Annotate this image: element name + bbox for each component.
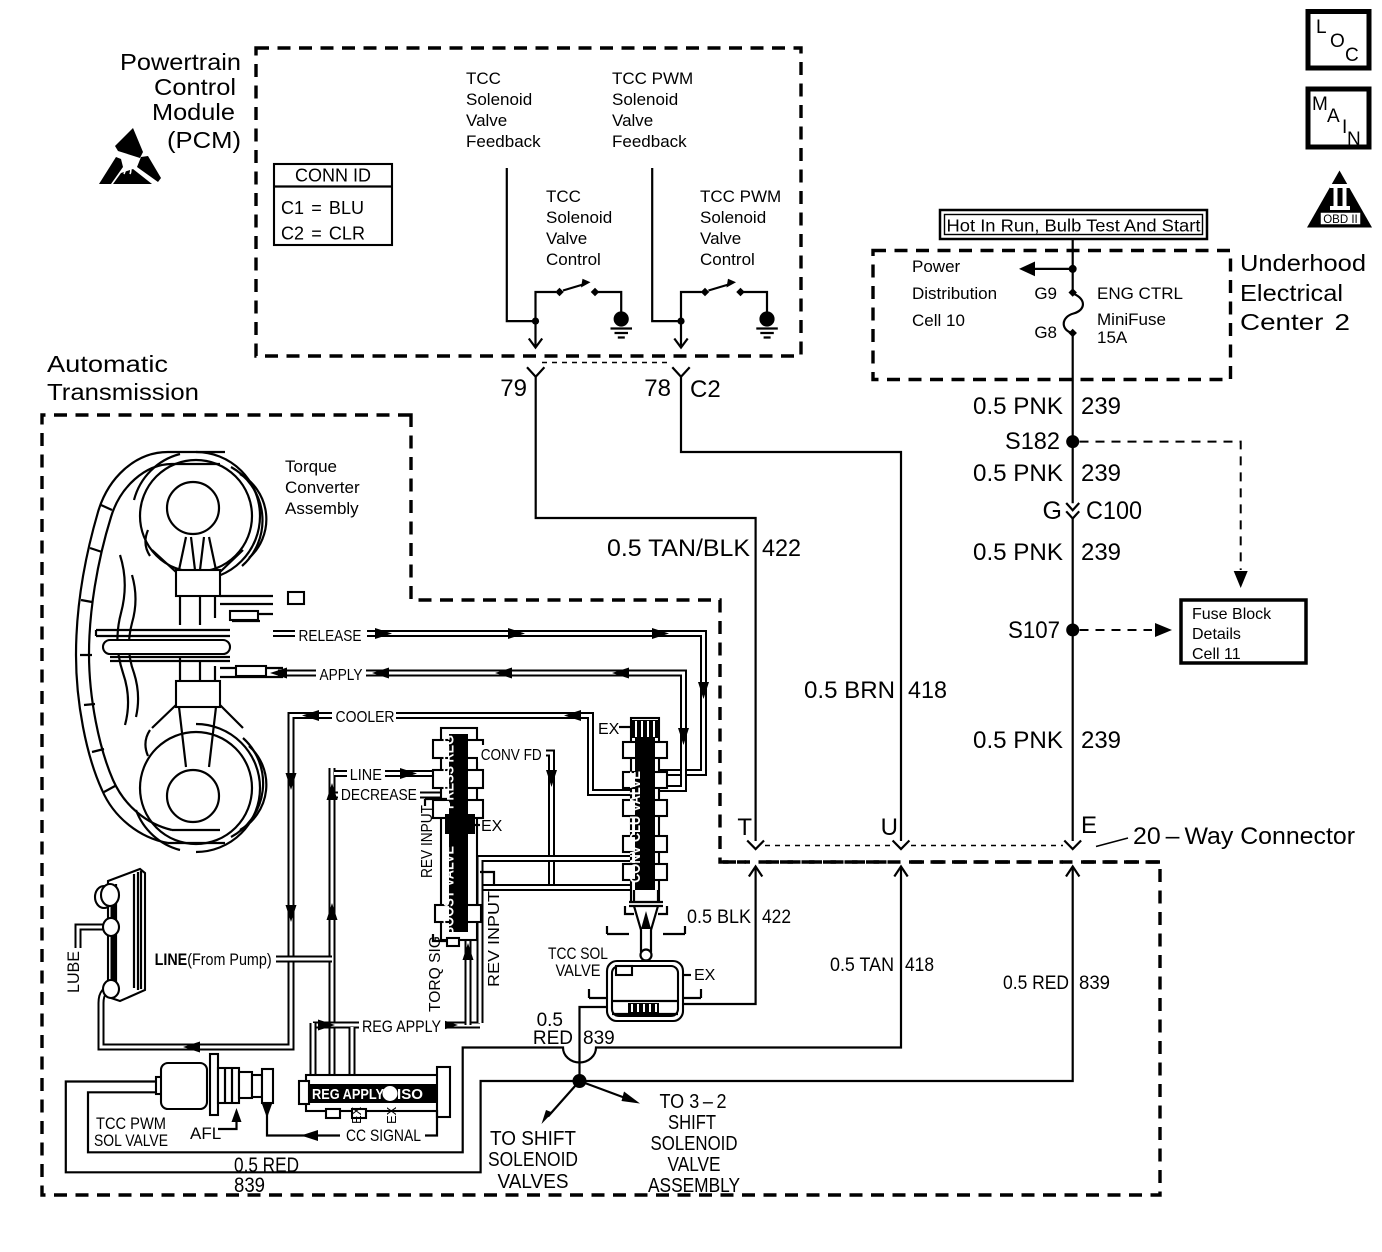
arrow COOLER bottom left bbox=[183, 1042, 200, 1053]
REG APPLY label bbox=[359, 1016, 445, 1036]
arrow APPLY left tip bbox=[270, 668, 287, 679]
svg-text:SOLENOID: SOLENOID bbox=[488, 1149, 578, 1171]
svg-text:0.5 RED: 0.5 RED bbox=[1003, 973, 1069, 994]
svg-text:N: N bbox=[1347, 129, 1361, 150]
arrow into T bbox=[749, 867, 762, 877]
svg-text:239: 239 bbox=[1081, 393, 1121, 420]
svg-text:422: 422 bbox=[762, 535, 801, 562]
pin 79 chevron bbox=[527, 367, 544, 377]
svg-text:0.5 PNK: 0.5 PNK bbox=[973, 727, 1063, 754]
svg-text:VALVES: VALVES bbox=[498, 1171, 569, 1193]
APPLY label bbox=[316, 664, 366, 684]
svg-text:Valve: Valve bbox=[546, 229, 587, 248]
svg-text:EX: EX bbox=[481, 818, 503, 835]
svg-text:0.5 BRN: 0.5 BRN bbox=[804, 677, 895, 704]
svg-text:TO SHIFT: TO SHIFT bbox=[490, 1128, 576, 1150]
TCC SOL VALVE label bbox=[548, 944, 608, 980]
arrow into U bbox=[894, 867, 907, 877]
tcc sol valve body bbox=[589, 961, 701, 1021]
SECTION: wires bbox=[66, 377, 1248, 1173]
node junction 1 bbox=[532, 318, 539, 325]
svg-text:Cell 11: Cell 11 bbox=[1192, 646, 1241, 663]
wire label 0.5 PNK 239 third bbox=[973, 539, 1121, 566]
wire from hot in run label into UEC bbox=[1072, 239, 1074, 269]
svg-text:0.5 PNK: 0.5 PNK bbox=[973, 393, 1063, 420]
svg-text:418: 418 bbox=[905, 955, 934, 976]
svg-text:EX: EX bbox=[384, 1106, 399, 1124]
svg-text:239: 239 bbox=[1081, 539, 1121, 566]
svg-text:Module: Module bbox=[152, 99, 235, 125]
tcc pwm sol valve body bbox=[156, 1054, 273, 1115]
Underhood Electrical Center 2 label bbox=[1240, 250, 1366, 335]
switch TCC PWM solenoid valve control bbox=[681, 279, 767, 321]
ESD symbol bbox=[99, 128, 161, 184]
PCM title text bbox=[120, 49, 241, 153]
svg-text:BOOST VALVE: BOOST VALVE bbox=[441, 846, 458, 936]
svg-text:DECREASE: DECREASE bbox=[341, 787, 417, 804]
arrow to 3-2 shift solenoid valve assembly bbox=[580, 1081, 641, 1104]
svg-text:Details: Details bbox=[1192, 626, 1241, 643]
svg-text:ISO: ISO bbox=[397, 1087, 423, 1103]
svg-text:TORQ SIG: TORQ SIG bbox=[427, 936, 444, 1012]
arrow to power distribution bbox=[1019, 262, 1073, 277]
svg-text:Valve: Valve bbox=[612, 111, 653, 130]
arrow REG APPLY right 1 bbox=[318, 1020, 335, 1031]
svg-text:Control: Control bbox=[154, 74, 236, 100]
svg-text:Assembly: Assembly bbox=[285, 499, 359, 518]
svg-text:M: M bbox=[1312, 94, 1328, 115]
pipe LINE From Pump bbox=[276, 956, 332, 963]
svg-text:Solenoid: Solenoid bbox=[546, 208, 612, 227]
svg-text:REG APPLY: REG APPLY bbox=[312, 1087, 384, 1103]
cc signal line from pwm valve bbox=[218, 1104, 437, 1141]
wire from fuse G8 down bbox=[1072, 334, 1074, 380]
svg-text:LUBE: LUBE bbox=[64, 951, 83, 993]
node red wire junction bbox=[573, 1074, 587, 1088]
arrow to pin 79 bbox=[529, 321, 542, 347]
arrow CONV FD down bbox=[546, 770, 557, 787]
Hot In Run header box bbox=[940, 210, 1207, 239]
fuse label ENG CTRL MiniFuse 15A bbox=[1097, 284, 1183, 347]
svg-text:C2: C2 bbox=[690, 376, 721, 403]
arrow COOLER down 1 bbox=[286, 773, 297, 790]
svg-text:VALVE: VALVE bbox=[556, 961, 601, 980]
svg-text:Torque: Torque bbox=[285, 457, 337, 476]
svg-text:G8: G8 bbox=[1034, 323, 1057, 342]
PCM dashed box bbox=[256, 48, 801, 356]
arrow REG APPLY right 2 bbox=[441, 1020, 458, 1031]
boost valve / pressure regulator body bbox=[433, 728, 483, 946]
wire TCC solenoid feedback bbox=[507, 168, 533, 321]
connector C100 chevrons bbox=[1066, 503, 1079, 519]
svg-text:VALVE: VALVE bbox=[668, 1154, 721, 1176]
TCC PWM Solenoid Valve Feedback label bbox=[612, 69, 693, 151]
svg-text:Control: Control bbox=[546, 250, 601, 269]
svg-text:839: 839 bbox=[234, 1174, 265, 1197]
wire 0.5 TAN 418 from U to tcc pwm sol valve bbox=[88, 867, 901, 1152]
wire 0.5 TAN/BLK 422 from pin 79 to T bbox=[536, 377, 756, 841]
svg-text:Power: Power bbox=[912, 257, 961, 276]
arrow RELEASE down bbox=[698, 682, 709, 699]
pipe riser B to conv clutch valve bbox=[480, 859, 640, 1024]
ex bracket at boost valve bbox=[475, 824, 480, 826]
pipe ISO feeder mid bbox=[349, 1027, 356, 1077]
TCC Solenoid Valve Control label bbox=[546, 187, 612, 269]
svg-text:S182: S182 bbox=[1005, 428, 1060, 455]
connector U chevron bbox=[893, 841, 910, 850]
SECTION: hydraulics bbox=[78, 628, 709, 1077]
svg-text:SOL VALVE: SOL VALVE bbox=[94, 1131, 168, 1150]
svg-text:TCC: TCC bbox=[546, 187, 581, 206]
pipe RELEASE bbox=[273, 634, 704, 773]
svg-text:G: G bbox=[1043, 497, 1062, 525]
CONN ID table bbox=[274, 164, 392, 245]
svg-text:839: 839 bbox=[583, 1028, 615, 1049]
pipe REG APPLY main bbox=[313, 1022, 480, 1029]
transmission 20-way dashed edge bbox=[723, 860, 1160, 863]
automatic transmission dashed box bbox=[42, 415, 1160, 1195]
arrow APPLY down bbox=[678, 728, 689, 745]
svg-text:Solenoid: Solenoid bbox=[700, 208, 766, 227]
wire 0.5 RED 839 from E to junction and tcc pwm sol valve bbox=[66, 867, 1073, 1172]
wire 0.5 RED 839 from tcc sol valve down bbox=[580, 1007, 608, 1081]
svg-text:Solenoid: Solenoid bbox=[612, 90, 678, 109]
svg-text:79: 79 bbox=[500, 375, 527, 402]
svg-text:OBD II: OBD II bbox=[1323, 214, 1358, 226]
svg-text:TCC PWM: TCC PWM bbox=[700, 187, 781, 206]
svg-text:Distribution: Distribution bbox=[912, 284, 997, 303]
svg-text:EX: EX bbox=[598, 721, 620, 738]
svg-text:Hot In Run, Bulb Test And Star: Hot In Run, Bulb Test And Start bbox=[947, 216, 1201, 236]
svg-text:LINE: LINE bbox=[350, 767, 382, 784]
svg-text:Powertrain: Powertrain bbox=[120, 49, 241, 75]
reg apply iso valve body bbox=[299, 1067, 450, 1118]
arrow LINE rail up 1 bbox=[327, 783, 338, 800]
arrow into E bbox=[1066, 867, 1079, 877]
svg-text:0.5 PNK: 0.5 PNK bbox=[973, 460, 1063, 487]
svg-text:REV INPUT: REV INPUT bbox=[419, 805, 436, 878]
ground symbol 1 bbox=[611, 311, 633, 337]
svg-text:TCC PWM: TCC PWM bbox=[612, 69, 693, 88]
pin 78 chevron bbox=[672, 367, 689, 377]
svg-text:239: 239 bbox=[1081, 460, 1121, 487]
wire label 0.5 TAN 418 bbox=[830, 955, 934, 976]
svg-text:C100: C100 bbox=[1086, 497, 1142, 525]
svg-text:Valve: Valve bbox=[466, 111, 507, 130]
splice S107 bbox=[1066, 624, 1079, 637]
pipe LINE rail bbox=[329, 768, 336, 1077]
0.5 RED 839 bottom label bbox=[234, 1154, 299, 1197]
svg-text:0.5 TAN/BLK: 0.5 TAN/BLK bbox=[607, 535, 750, 562]
LOC icon box bbox=[1308, 12, 1369, 69]
rev input bracket left bbox=[425, 799, 447, 806]
arrow APPLY left 4 bbox=[612, 668, 629, 679]
svg-text:Underhood: Underhood bbox=[1240, 250, 1366, 276]
svg-text:L: L bbox=[1316, 17, 1327, 38]
switch TCC solenoid valve control bbox=[536, 279, 622, 321]
svg-text:EX: EX bbox=[694, 967, 716, 984]
wire label 0.5 PNK 239 first bbox=[973, 393, 1121, 420]
wire to fuse G9 bbox=[1072, 269, 1074, 290]
svg-text:239: 239 bbox=[1081, 727, 1121, 754]
svg-text:Solenoid: Solenoid bbox=[466, 90, 532, 109]
svg-text:AFL: AFL bbox=[190, 1124, 221, 1143]
arrow RELEASE right 1 bbox=[375, 628, 392, 639]
svg-text:CONV FD: CONV FD bbox=[481, 747, 542, 764]
svg-text:T: T bbox=[737, 814, 752, 841]
arrow to pin 78 bbox=[674, 321, 687, 347]
Fuse Block text bbox=[1192, 606, 1272, 663]
arrow COOLER left 1 bbox=[302, 710, 319, 721]
svg-text:422: 422 bbox=[762, 907, 791, 928]
svg-text:Center 2: Center 2 bbox=[1240, 309, 1350, 335]
torque converter shaft bbox=[96, 596, 283, 677]
ground symbol 2 bbox=[756, 311, 778, 337]
svg-text:APPLY: APPLY bbox=[320, 667, 363, 684]
wire label 0.5 PNK 239 second bbox=[973, 460, 1121, 487]
svg-text:0.5 PNK: 0.5 PNK bbox=[973, 539, 1063, 566]
svg-text:U: U bbox=[881, 814, 898, 841]
UEC dashed box bbox=[873, 251, 1231, 380]
LINE label bbox=[347, 765, 385, 784]
svg-text:Automatic: Automatic bbox=[47, 351, 168, 377]
svg-text:Electrical: Electrical bbox=[1240, 280, 1343, 306]
arrow RELEASE right 2 bbox=[508, 628, 525, 639]
tcc sol valve stem funnel bbox=[607, 890, 685, 961]
rev input bracket right bbox=[480, 872, 494, 884]
MAIN icon box bbox=[1308, 89, 1369, 150]
lube cooler radiator bbox=[95, 869, 145, 1001]
20-way connector leader line bbox=[1096, 838, 1128, 847]
connector label G C100 bbox=[1043, 497, 1142, 525]
svg-text:SOLENOID: SOLENOID bbox=[651, 1133, 738, 1155]
svg-text:MiniFuse: MiniFuse bbox=[1097, 310, 1166, 329]
arrow COOLER down 2 bbox=[286, 905, 297, 922]
converter clutch valve body bbox=[623, 718, 667, 902]
svg-text:CONN ID: CONN ID bbox=[295, 166, 371, 186]
SECTION: torqueconverter bbox=[76, 452, 304, 852]
OBD II icon triangle bbox=[1307, 171, 1372, 228]
svg-text:ASSEMBLY: ASSEMBLY bbox=[648, 1175, 740, 1197]
wire label 0.5 BLK 422 bbox=[687, 907, 791, 928]
TO 3-2 SHIFT SOLENOID VALVE ASSEMBLY label bbox=[648, 1091, 740, 1197]
svg-text:CC SIGNAL: CC SIGNAL bbox=[346, 1126, 421, 1145]
svg-text:78: 78 bbox=[644, 375, 671, 402]
connector T chevron bbox=[747, 841, 764, 850]
svg-text:G9: G9 bbox=[1034, 284, 1057, 303]
svg-text:REG APPLY: REG APPLY bbox=[362, 1017, 441, 1036]
svg-text:0.5 BLK: 0.5 BLK bbox=[687, 907, 751, 928]
wire TCC PWM solenoid feedback bbox=[652, 168, 678, 321]
dashed branch from S182 to fuse block details bbox=[1080, 442, 1248, 588]
svg-text:Feedback: Feedback bbox=[466, 132, 541, 151]
pipe APPLY bbox=[278, 673, 684, 789]
arrow LINE rail up 2 bbox=[327, 903, 338, 920]
node junction 2 bbox=[677, 318, 684, 325]
svg-text:REV INPUT: REV INPUT bbox=[486, 891, 503, 987]
wire 0.5 BLK 422 from T to tcc sol valve bbox=[683, 867, 756, 1004]
svg-text:Converter: Converter bbox=[285, 478, 360, 497]
TCC Solenoid Valve Feedback label bbox=[466, 69, 541, 151]
wire label 0.5 RED 839 bbox=[1003, 973, 1110, 994]
Fuse Block Details box bbox=[1181, 600, 1306, 663]
svg-text:ENG CTRL: ENG CTRL bbox=[1097, 284, 1183, 303]
dashed branch from S107 to fuse block details bbox=[1080, 623, 1173, 637]
DECREASE label bbox=[338, 786, 420, 804]
svg-text:A: A bbox=[1327, 106, 1340, 127]
ex bracket at conv valve top bbox=[619, 726, 631, 728]
SECTION: uec bbox=[1019, 239, 1083, 380]
svg-text:SHIFT: SHIFT bbox=[668, 1112, 716, 1134]
svg-text:TCC: TCC bbox=[466, 69, 501, 88]
wire label 0.5 PNK 239 fourth bbox=[973, 727, 1121, 754]
pipe CONV FD bbox=[468, 753, 552, 888]
CONV FD label bbox=[478, 745, 546, 764]
svg-text:CONV CLU VALVE: CONV CLU VALVE bbox=[627, 771, 644, 883]
svg-text:15A: 15A bbox=[1097, 328, 1128, 347]
torque converter top lobe bbox=[134, 452, 304, 625]
pipe ISO feeder left bbox=[310, 1023, 317, 1077]
svg-text:(PCM): (PCM) bbox=[167, 127, 241, 153]
svg-text:Valve: Valve bbox=[700, 229, 741, 248]
TCC PWM SOL VALVE label bbox=[94, 1114, 168, 1150]
wire label 0.5 BRN 418 bbox=[804, 677, 947, 704]
SECTION: valves bbox=[95, 718, 701, 1141]
torque converter outer housing bbox=[76, 452, 225, 843]
svg-text:Transmission: Transmission bbox=[47, 379, 199, 405]
svg-text:Control: Control bbox=[700, 250, 755, 269]
pipe LINE branch to boost valve bbox=[334, 770, 450, 777]
svg-text:LINE(From Pump): LINE(From Pump) bbox=[155, 950, 272, 969]
LINE From Pump label bbox=[150, 948, 274, 969]
svg-text:E: E bbox=[1081, 812, 1097, 839]
svg-text:Cell 10: Cell 10 bbox=[912, 311, 965, 330]
pipe riser A to conv clutch valve bbox=[468, 888, 640, 1026]
svg-text:RELEASE: RELEASE bbox=[299, 628, 362, 645]
wire label 0.5 TAN/BLK 422 bbox=[607, 535, 801, 562]
arrow riser A up bbox=[463, 943, 474, 960]
svg-text:C1 = BLU: C1 = BLU bbox=[281, 198, 364, 218]
pipe DECREASE branch bbox=[334, 792, 450, 799]
pipe LUBE hose bbox=[78, 927, 122, 948]
svg-text:TO 3 – 2: TO 3 – 2 bbox=[660, 1091, 727, 1113]
20-way connector fine dashed line bbox=[765, 845, 1063, 847]
arrow APPLY left 2 bbox=[372, 668, 389, 679]
fuse ENG CTRL MiniFuse bbox=[1064, 288, 1083, 337]
TCC PWM Solenoid Valve Control label bbox=[700, 187, 781, 269]
svg-text:0.5 TAN: 0.5 TAN bbox=[830, 955, 894, 976]
svg-text:COOLER: COOLER bbox=[336, 709, 395, 726]
Automatic Transmission title bbox=[47, 351, 199, 405]
svg-text:C2 = CLR: C2 = CLR bbox=[281, 224, 365, 244]
0.5 RED 839 label at tcc sol valve bbox=[533, 1010, 615, 1049]
svg-text:C: C bbox=[1345, 45, 1359, 66]
svg-text:Fuse Block: Fuse Block bbox=[1192, 606, 1272, 623]
svg-text:Feedback: Feedback bbox=[612, 132, 687, 151]
node power distribution tap bbox=[1069, 265, 1077, 273]
arrow LINE branch right bbox=[400, 768, 417, 779]
SECTION: icons bbox=[1307, 12, 1372, 228]
wire 0.5 PNK 239 from UEC to E bbox=[1072, 380, 1074, 841]
svg-text:EX: EX bbox=[349, 1106, 364, 1124]
svg-text:839: 839 bbox=[1079, 973, 1110, 994]
pipe COOLER loop to lube cooler bbox=[101, 716, 640, 1048]
arrow APPLY left 3 bbox=[495, 668, 512, 679]
wire 0.5 BRN 418 from pin 78 to U bbox=[681, 377, 901, 841]
Power Distribution Cell 10 label bbox=[912, 257, 997, 330]
arrow to shift solenoid valves bbox=[542, 1081, 580, 1124]
svg-text:S107: S107 bbox=[1008, 617, 1060, 644]
SECTION: pcm bbox=[507, 168, 778, 377]
connector E chevron bbox=[1064, 841, 1081, 850]
svg-text:RED: RED bbox=[533, 1028, 573, 1049]
torque converter bottom lobe bbox=[136, 658, 266, 852]
arrow RELEASE right 3 bbox=[652, 628, 669, 639]
Torque Converter Assembly label bbox=[285, 457, 360, 518]
splice S182 bbox=[1066, 435, 1079, 448]
svg-text:418: 418 bbox=[908, 677, 947, 704]
connector C2 fine dashed line bbox=[542, 362, 672, 364]
torq sig bracket bbox=[433, 934, 447, 941]
svg-text:O: O bbox=[1330, 31, 1345, 52]
RELEASE label bbox=[295, 624, 367, 645]
arrow in tcc sol valve stem bbox=[641, 911, 651, 929]
svg-text:20 – Way Connector: 20 – Way Connector bbox=[1133, 823, 1355, 850]
COOLER label bbox=[332, 706, 396, 726]
arrow COOLER left 2 bbox=[564, 710, 581, 721]
TO SHIFT SOLENOID VALVES label bbox=[488, 1128, 578, 1193]
